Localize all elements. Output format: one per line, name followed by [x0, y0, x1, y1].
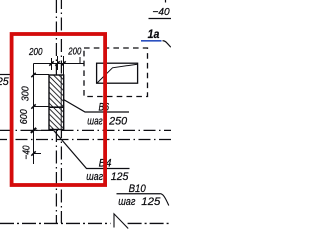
svg-text:1а: 1а: [148, 29, 160, 41]
svg-text:шаг: шаг: [86, 171, 103, 183]
dimension end bar: [79, 57, 81, 64]
small tick top edge: [165, 0, 167, 3]
left dimension line: [31, 64, 49, 165]
horizontal axis line D (dash-dot): [0, 139, 171, 141]
solid detail rect: [97, 63, 138, 83]
bar bend line in detail rect: [97, 64, 137, 83]
leader B6: [64, 100, 130, 113]
extension y153.5: [34, 153, 42, 155]
svg-text:125: 125: [141, 196, 161, 208]
svg-text:125: 125: [0, 76, 10, 88]
tick marks: [49, 61, 53, 65]
rule under -40: [149, 18, 172, 20]
svg-text:−40: −40: [22, 145, 33, 159]
hatched column section: [49, 75, 64, 130]
svg-text:200: 200: [68, 47, 82, 58]
vertical axis line B (dash-dot): [60, 0, 62, 223]
leader B4: [52, 129, 130, 169]
label B10 rule: [117, 193, 161, 195]
extension line x51: [51, 58, 53, 70]
vertical axis line A (dash-dot): [55, 0, 57, 223]
blue rule under 1a: [141, 40, 162, 42]
svg-text:300: 300: [21, 86, 32, 101]
tick marks: [31, 73, 35, 77]
svg-text:шаг: шаг: [87, 116, 103, 128]
svg-text:В10: В10: [129, 183, 147, 195]
svg-text:125: 125: [111, 171, 130, 183]
break symbol: [114, 214, 128, 229]
svg-text:600: 600: [19, 109, 30, 124]
axis through section: [60, 75, 62, 130]
extension line x57.5: [57, 56, 59, 70]
svg-text:250: 250: [108, 116, 128, 128]
top dimension line: [34, 56, 84, 75]
section divider: [49, 106, 64, 108]
leader hook B10: [160, 194, 169, 206]
extension y130: [34, 129, 49, 131]
left cut label 125 with rule: [0, 74, 10, 76]
red highlight rectangle: [12, 34, 106, 185]
extension y106.5: [34, 106, 50, 108]
extension line x63.2: [63, 56, 65, 75]
horizontal axis line C (dash-dot): [0, 129, 171, 131]
svg-text:−40: −40: [153, 6, 170, 18]
svg-text:200: 200: [28, 47, 43, 58]
bottom axis line with break: [0, 222, 111, 224]
extension y75: [34, 74, 50, 76]
svg-text:шаг: шаг: [118, 196, 136, 208]
leader hook 1a: [163, 41, 171, 47]
dashed detail box: [84, 48, 148, 97]
